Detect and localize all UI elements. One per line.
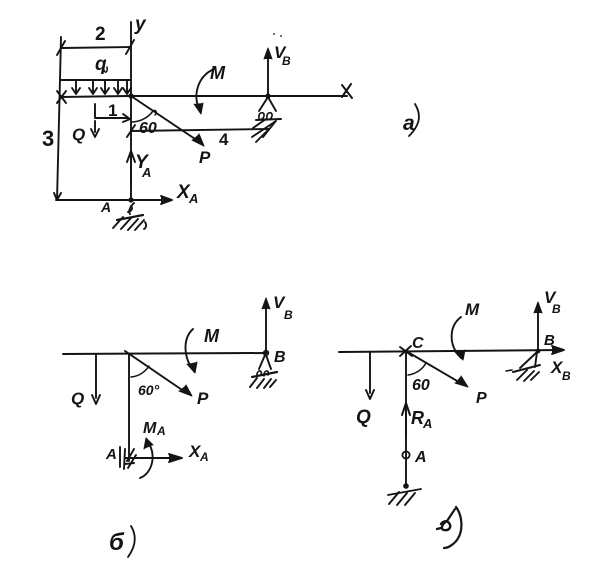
support B hatch line a [256, 119, 281, 120]
beam v [339, 350, 560, 352]
base slash 3 v [405, 493, 415, 505]
reaction YA arrow [127, 151, 135, 185]
dimension 1 line with arrow [95, 114, 130, 122]
origin node dot [128, 93, 133, 98]
load arrow 2 [89, 80, 97, 94]
support slash 2 v [524, 371, 534, 381]
load arrow 3 [101, 80, 109, 94]
force Q arrow v [366, 352, 374, 399]
moment M arc b [186, 329, 194, 370]
svg-text:B: B [552, 302, 561, 316]
support A hatch line [117, 215, 143, 220]
svg-text:B: B [274, 349, 286, 366]
moment M arrowhead b [187, 362, 197, 373]
load arrow 4 [114, 80, 122, 94]
support A squiggle [128, 203, 134, 214]
reaction XA arrow b [125, 454, 182, 462]
support A slash 2 [121, 218, 131, 229]
svg-text:M: M [143, 420, 157, 437]
pin A circle v [402, 451, 409, 458]
bottom frame line [56, 199, 131, 201]
reaction VB stem v [537, 306, 539, 350]
svg-text:3: 3 [42, 126, 54, 151]
moment M arc a [196, 69, 214, 111]
svg-text:A: A [414, 449, 427, 466]
distributed load top line [61, 79, 131, 81]
reaction XA arrow a [131, 196, 172, 204]
svg-text:A: A [422, 416, 432, 431]
node C mark [400, 346, 412, 356]
svg-text:4: 4 [219, 130, 229, 149]
frame left vertical line [57, 37, 61, 200]
support B loops b [257, 371, 268, 376]
support B node dot v [536, 349, 541, 354]
base slash 2 v [397, 493, 407, 505]
force P line a [131, 96, 201, 143]
VB arrowhead v [534, 302, 542, 313]
beam arrow X axis v [552, 346, 564, 354]
svg-text:B: B [284, 308, 293, 322]
svg-text:M: M [210, 63, 226, 83]
angle arc v [408, 363, 426, 375]
reaction RA arrow v [402, 403, 410, 437]
support slash 3 v [531, 372, 539, 380]
svg-text:B: B [544, 332, 555, 349]
force P line v [406, 351, 464, 385]
svg-text:M: M [465, 300, 480, 319]
svg-text:A: A [141, 165, 151, 180]
support B slashes b [250, 378, 276, 388]
base slash 1 v [389, 492, 399, 504]
support B node b [264, 351, 269, 356]
svg-text:A: A [188, 191, 198, 206]
P arrowhead v [455, 376, 468, 387]
support B triangle b [259, 355, 271, 369]
support B ground line v [513, 365, 540, 372]
angle arc b [131, 366, 149, 377]
svg-text:60°: 60° [138, 382, 160, 398]
dimension 1 tick [94, 104, 96, 117]
column line from origin to A [130, 96, 132, 200]
clamp mark A b [120, 447, 125, 469]
support A comma [144, 222, 146, 229]
svg-text:B: B [282, 54, 291, 68]
label v) [444, 507, 461, 548]
column line v [405, 351, 407, 486]
base hatch line v [388, 489, 421, 495]
column line b [128, 354, 130, 461]
support B slash 1 a [253, 119, 266, 128]
svg-text:б: б [109, 529, 125, 556]
load arrow 1 [72, 80, 80, 94]
left end load mark X [57, 91, 66, 103]
svg-text:2: 2 [95, 24, 106, 45]
svg-text:M: M [204, 326, 220, 346]
tick right of dim 2 [126, 40, 134, 54]
tick right of dim 4 [263, 122, 275, 137]
angle 60 arc a [132, 110, 156, 122]
base pin dot v [403, 483, 409, 489]
dimension line 2 [62, 47, 130, 48]
reaction VB stem b [265, 302, 267, 353]
support A slash 3 [128, 219, 138, 230]
VB arrowhead a [264, 48, 272, 59]
beam b [63, 353, 267, 354]
ink speck 1 [273, 33, 275, 35]
support B node a [265, 93, 270, 98]
tick left of dim 4 [127, 125, 135, 137]
support hatch dash v [506, 370, 512, 371]
support slash 1 v [517, 370, 527, 380]
force Q arrow [91, 121, 99, 137]
reaction VB stem a [267, 52, 269, 95]
support B triangle v [520, 352, 537, 368]
VB arrowhead b [262, 298, 270, 309]
svg-text:A: A [100, 199, 111, 215]
junction scribble b [125, 449, 136, 468]
svg-text:Q: Q [356, 407, 371, 428]
MA arrowhead b [144, 438, 153, 449]
svg-text:P: P [476, 390, 487, 407]
force P line b [125, 351, 188, 394]
beam main line [61, 96, 347, 97]
P arrowhead a [192, 134, 204, 146]
P arrowhead b [179, 385, 192, 396]
support A slash 1 [113, 217, 123, 228]
moment M arc v [452, 317, 461, 358]
bottom left arrow of 3 [54, 193, 61, 200]
moment M arrowhead a [194, 103, 203, 114]
svg-text:Q: Q [72, 125, 85, 144]
moment MA arc b [140, 441, 153, 478]
svg-text:y: y [134, 14, 147, 35]
svg-text:Q: Q [71, 389, 84, 408]
y axis line [130, 22, 132, 95]
support B loops a [259, 113, 272, 120]
A node dot a [128, 197, 133, 202]
support B slash 2 a [252, 121, 276, 137]
support B triangle a [259, 97, 276, 111]
svg-text:C: C [412, 335, 424, 352]
svg-text:P: P [199, 148, 211, 167]
label x at beam end [342, 84, 352, 98]
support B slash 3 a [256, 130, 268, 142]
q swash [104, 67, 107, 72]
svg-text:1: 1 [108, 101, 117, 120]
svg-text:A: A [199, 450, 209, 464]
svg-text:A: A [105, 446, 117, 463]
tick left of dim 2 [57, 41, 65, 55]
support B hatch b [252, 372, 277, 377]
svg-text:A: A [156, 424, 166, 438]
svg-text:B: B [562, 369, 571, 383]
ink speck 2 [280, 35, 282, 37]
svg-text:60: 60 [412, 377, 430, 394]
load arrow 5 [123, 80, 131, 94]
dimension 4 line [131, 129, 269, 131]
support A slash 4 [135, 220, 144, 230]
svg-text:60: 60 [139, 120, 157, 137]
svg-text:P: P [197, 389, 209, 408]
force Q arrow b [92, 354, 100, 404]
moment M arrowhead v [455, 350, 465, 360]
